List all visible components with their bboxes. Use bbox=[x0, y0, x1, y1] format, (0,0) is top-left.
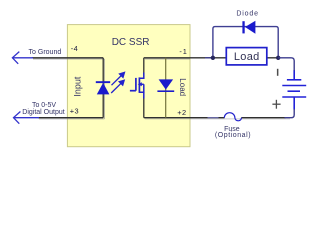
body arrow head bbox=[138, 82, 142, 86]
svg-text:To Ground: To Ground bbox=[29, 49, 62, 56]
wire: junction to battery top (navy, rounded corner) bbox=[278, 58, 294, 71]
light emission arrows bbox=[111, 72, 124, 93]
battery top lead bbox=[293, 70, 295, 79]
junction node right bbox=[276, 56, 280, 60]
plate short 2 bbox=[288, 90, 301, 92]
wire: input conductor vertical bbox=[102, 58, 104, 118]
battery B1 bbox=[282, 70, 306, 110]
flyback diode loop (risers + top wire) bbox=[213, 27, 278, 58]
battery bottom lead with rounded corner bbox=[293, 97, 295, 110]
arrow To Digital Output (blue, points left) bbox=[14, 112, 40, 124]
svg-text:Input: Input bbox=[73, 76, 83, 97]
wire shadow (input conductor) bbox=[104, 59, 106, 119]
wire: input bottom (to pin +3) bbox=[38, 117, 103, 119]
wire: output left conductor lower (source side) bbox=[143, 97, 145, 118]
arrow To Ground (blue, points left) bbox=[12, 52, 33, 64]
svg-text:(Optional): (Optional) bbox=[215, 132, 251, 139]
svg-text:Digital Output: Digital Output bbox=[22, 109, 64, 116]
diode D2 (internal, points down) bbox=[157, 79, 174, 92]
wire: output bottom (pin +2 to fuse) bbox=[144, 117, 225, 119]
plate long 2 bbox=[282, 96, 306, 98]
channel bbox=[138, 77, 140, 93]
source lead down bbox=[143, 92, 145, 98]
wire shadow (output top) bbox=[145, 58, 190, 60]
wire tint near left junction bbox=[205, 57, 213, 59]
SSR body (yellow box) bbox=[67, 25, 190, 147]
svg-text:+2: +2 bbox=[177, 108, 186, 117]
wire tint left of fuse bbox=[208, 117, 219, 119]
drain stub bbox=[139, 73, 143, 79]
MOSFET Q1 (photo-MOSFET) bbox=[130, 77, 140, 93]
svg-text:+3: +3 bbox=[70, 107, 79, 116]
wire shadow (output bottom) bbox=[145, 118, 290, 120]
wire: battery bottom to fuse wire (navy, rounded corner) bbox=[285, 109, 295, 118]
Load box bbox=[226, 48, 266, 65]
svg-text:Load: Load bbox=[234, 51, 260, 63]
wire: fuse to battery corner bbox=[241, 117, 285, 119]
plate long 1 bbox=[282, 85, 306, 87]
junction node left bbox=[211, 56, 215, 60]
wire shadow (input bottom) bbox=[39, 118, 104, 120]
LED D1 (input opto LED, points up) bbox=[96, 81, 110, 94]
svg-text:Load: Load bbox=[178, 78, 187, 96]
wire shadow (input top) bbox=[33, 58, 104, 60]
minus marker (battery top) bbox=[277, 69, 279, 76]
svg-text:-1: -1 bbox=[179, 47, 187, 56]
svg-text:-4: -4 bbox=[71, 44, 78, 53]
wire: output left conductor upper (drain side) bbox=[143, 58, 145, 75]
body-source connector bbox=[139, 84, 143, 92]
plate short 1 bbox=[287, 79, 301, 81]
svg-text:Diode: Diode bbox=[236, 11, 259, 18]
diode D3 (flyback, points left) bbox=[242, 21, 255, 34]
body stub bbox=[139, 83, 143, 85]
wire: input top (to pin -4) bbox=[32, 57, 103, 59]
wire: output top (pin -1 to battery corner) bbox=[144, 57, 278, 59]
gate lead bbox=[130, 90, 136, 92]
fuse F1 (bump) bbox=[224, 113, 241, 121]
load-side conductor (olive vertical in SSR) bbox=[165, 58, 167, 118]
svg-text:DC SSR: DC SSR bbox=[112, 37, 150, 48]
plus marker (battery bottom) bbox=[272, 100, 280, 109]
gate plate bbox=[135, 78, 137, 91]
